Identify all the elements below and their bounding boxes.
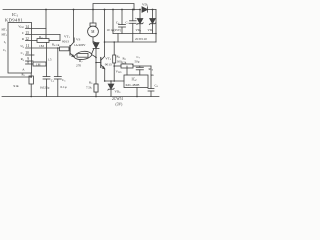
wire right drop from rail [104,10,106,57]
wire VDD vertical [45,10,47,39]
inside pin names [18,25,25,72]
wire R9 row [114,65,121,67]
capacitor C7 [136,66,143,75]
wire osc vertical [59,35,61,41]
svg-text:C: C [22,31,24,35]
wire node row y81 [105,80,124,82]
svg-text:8: 8 [27,61,29,65]
svg-text:270: 270 [76,63,81,67]
zener VD2 [137,10,143,34]
svg-text:10 1μ(25V): 10 1μ(25V) [107,28,121,32]
svg-text:7.5k: 7.5k [86,86,92,90]
svg-text:1A/400V: 1A/400V [74,43,86,47]
motor M1 [88,10,99,42]
wire pin14 [26,28,47,30]
wire R7 to cathode [92,54,97,57]
wire gate diagonal [92,49,94,55]
wire pin11 [26,47,60,49]
svg-text:R4 1k: R4 1k [52,42,60,47]
resistor R9 [121,64,133,68]
svg-text:1.5: 1.5 [48,58,52,62]
wire rail join vertical [112,10,114,34]
svg-text:62k: 62k [122,60,127,64]
capacitor C2 [43,77,50,97]
svg-text:0.022μ: 0.022μ [40,86,50,90]
capacitor C5 [130,10,137,34]
wire pin9 stub [26,60,34,62]
resistor R6 [94,84,98,92]
svg-text:HT2: HT2 [2,32,8,37]
resistor R3 [33,62,46,66]
transistor Q1 VT1 [70,43,74,57]
svg-text:12: 12 [25,37,29,41]
svg-text:VD6: VD6 [115,90,122,95]
svg-text:HT1: HT1 [2,27,8,32]
wire R2-R3-C2 vertical [46,42,48,76]
svg-text:50μ: 50μ [135,60,140,64]
zener VD3 [149,10,155,34]
svg-text:VT1: VT1 [64,35,71,40]
svg-text:(3V): (3V) [116,103,124,107]
svg-text:KD9481: KD9481 [5,18,23,23]
svg-text:0.1μ: 0.1μ [61,85,67,89]
wire emitter to gate arc [74,51,92,56]
svg-text:+: + [135,17,137,21]
svg-text:1M: 1M [36,63,41,67]
resistor R5 [29,73,33,97]
zener VD6 [108,81,114,97]
svg-text:9013: 9013 [62,40,69,44]
wire R9 to C7 [133,65,151,67]
resistor R2 [37,39,49,43]
wire C3 vertical [57,48,59,77]
IC U2 box [124,75,148,88]
wire second right rail [105,41,157,43]
diode VD1 [142,7,148,12]
svg-text:VDD: VDD [116,70,122,75]
capacitor C8 [148,66,154,97]
resistor R4 [60,47,70,51]
svg-text:VDD: VDD [18,25,24,30]
svg-text:11: 11 [26,44,30,48]
wire emitter to R7 lower arc [74,55,92,59]
wire R2 to node [49,40,60,42]
wire bottom rail [2,96,159,98]
capacitor C3 [54,77,61,97]
wire IC2 bottom stub [136,88,138,97]
svg-text:VD1: VD1 [142,3,149,8]
svg-text:KD–482B: KD–482B [126,83,141,87]
svg-text:14: 14 [25,25,29,29]
thyristor VS [93,42,99,97]
svg-text:1M: 1M [39,44,44,48]
wire top rail [3,9,140,11]
svg-text:10: 10 [25,51,29,55]
svg-text:+: + [132,63,134,67]
wire zener bottom rail [113,33,156,35]
wire right edge vertical [155,10,157,43]
svg-text:IC2: IC2 [132,78,138,83]
svg-text:2CW110: 2CW110 [135,37,147,41]
wire IC2 stub left [126,66,128,75]
wire pin8 [26,63,34,65]
wire pin10 stub [26,54,35,56]
svg-text:13: 13 [25,31,29,35]
svg-text:91k: 91k [14,84,19,88]
junction dots [30,9,156,98]
tick mark before VS [73,38,75,43]
IC U1 box [8,23,32,74]
wire left lower horizontal [0,76,31,78]
svg-text:5k: 5k [151,73,155,77]
wire after VD1 [148,9,157,11]
wire rect left vertical [117,34,119,43]
resistor R7 [77,53,88,57]
capacitor C4 [119,10,126,34]
wire rect mid vertical [132,34,134,43]
resistor R8 [113,42,116,81]
wire bypass upper rail [93,4,134,10]
resistor R6 box redraw on top [94,84,98,92]
pin numbers right column [25,25,29,65]
svg-text:VS: VS [76,38,80,42]
wire pin12 [26,40,38,42]
text labels [2,3,159,107]
transistor Q1 collector vertical [73,10,75,43]
svg-text:9013: 9013 [105,62,112,66]
svg-text:VT2: VT2 [105,57,112,62]
transistor Q2 VT2 [96,57,105,82]
outside left pin names [2,27,8,52]
wire pin13 [26,34,61,36]
wire R4 to base [69,48,70,50]
svg-text:2CW51: 2CW51 [112,97,123,101]
